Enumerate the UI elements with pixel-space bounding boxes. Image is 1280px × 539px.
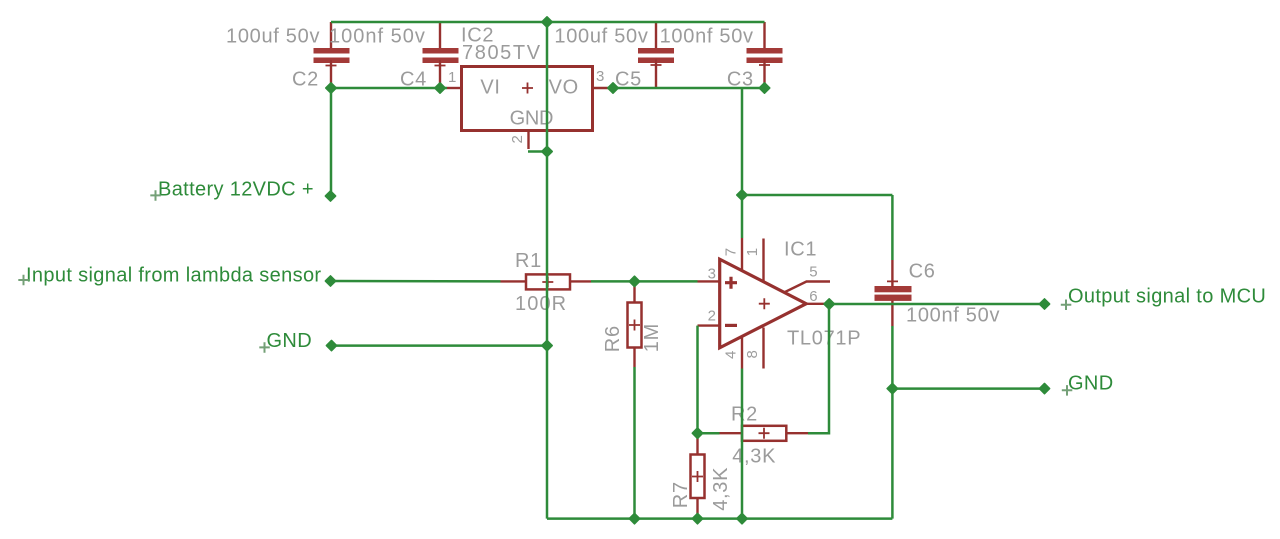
R7 origin cross	[692, 471, 703, 482]
IC2 pin 1 stub	[447, 87, 461, 89]
wire IC2 GND jog	[528, 150, 547, 153]
op-amp IC1 pin 4 stub	[741, 338, 743, 369]
capacitor C4 plates	[423, 48, 459, 63]
end dot output	[1039, 299, 1049, 309]
wire bottom GND rail	[547, 517, 892, 520]
junction output pin6	[824, 299, 834, 309]
C6 origin cross	[887, 276, 898, 287]
junction R7 top	[692, 428, 702, 438]
junction GND left	[542, 340, 552, 350]
svg-text:Output signal to MCU: Output signal to MCU	[1068, 286, 1266, 308]
svg-text:VO: VO	[549, 77, 579, 99]
junction C3	[759, 83, 769, 93]
wire +5V across to C6	[742, 194, 892, 197]
junction rail R7	[692, 513, 702, 523]
resistor R2 left lead	[720, 432, 743, 434]
svg-text:2: 2	[708, 307, 716, 324]
svg-text:VI: VI	[480, 77, 500, 99]
op-amp + input marker	[725, 277, 737, 289]
op-amp IC1 pin 8 stub	[762, 328, 764, 369]
C2 origin cross	[326, 60, 337, 71]
capacitor C2 plates	[314, 48, 350, 63]
IC2 box	[462, 67, 593, 131]
junction C2	[326, 83, 336, 93]
junction pin3 IC2	[608, 83, 618, 93]
C5 origin cross	[651, 60, 662, 71]
svg-text:TL071P: TL071P	[787, 328, 861, 350]
svg-text:4: 4	[723, 351, 740, 359]
wire C6 branch lower	[891, 326, 894, 519]
junction IC2 GND	[542, 146, 552, 156]
svg-text:7805TV: 7805TV	[462, 42, 542, 64]
svg-text:4,3K: 4,3K	[710, 467, 732, 511]
svg-text:Input signal from lambda senso: Input signal from lambda sensor	[26, 265, 321, 287]
IC2 origin cross	[522, 83, 533, 94]
svg-text:100nf 50v: 100nf 50v	[660, 26, 754, 48]
end dot input	[325, 276, 335, 286]
wire R1 to pin3	[591, 280, 698, 283]
resistor R6 top lead	[633, 282, 635, 303]
capacitor C6 plates	[875, 286, 912, 301]
svg-text:1M: 1M	[641, 323, 663, 352]
resistor R1 left lead	[501, 280, 527, 282]
resistor R6 bottom lead	[633, 348, 635, 368]
end dot GND left	[326, 341, 336, 351]
op-amp - input marker	[725, 324, 737, 327]
wire pin2 down	[698, 326, 720, 434]
op-amp IC1 pin 1 stub	[762, 239, 764, 282]
junction R1/R6	[629, 276, 639, 286]
wire C6 branch upper	[891, 195, 894, 260]
svg-text:C6: C6	[909, 261, 936, 283]
resistor R7 bottom lead	[696, 498, 698, 518]
svg-text:3: 3	[708, 266, 716, 283]
svg-text:1: 1	[448, 69, 456, 86]
svg-text:Battery 12VDC +: Battery 12VDC +	[158, 178, 314, 200]
junction +5V corner	[737, 190, 747, 200]
resistor R7 top lead	[696, 433, 698, 454]
svg-text:100uf 50v: 100uf 50v	[226, 26, 320, 48]
capacitor C3 lead	[763, 22, 765, 49]
svg-text:GND: GND	[267, 330, 313, 352]
resistor R2 body	[742, 426, 786, 441]
junction top rail	[542, 17, 552, 27]
svg-text:8: 8	[744, 350, 761, 358]
R6 origin cross	[629, 320, 640, 331]
svg-text:100uf 50v: 100uf 50v	[554, 26, 648, 48]
wire +12V row	[331, 87, 447, 90]
svg-text:R6: R6	[602, 325, 624, 352]
capacitor C5 plates	[638, 48, 674, 63]
wire output row	[827, 303, 1045, 306]
resistor R1 body	[526, 274, 570, 289]
svg-text:5: 5	[809, 264, 817, 281]
IC2 pin 2 GND stub	[527, 131, 529, 150]
junction C4	[435, 83, 445, 93]
resistor R6 body	[628, 303, 642, 348]
svg-text:C2: C2	[292, 69, 319, 91]
capacitor C6 bottom lead	[891, 300, 893, 326]
capacitor C3 plates	[747, 48, 783, 63]
op-amp IC1 pin 3 stub	[698, 280, 721, 282]
svg-text:R1: R1	[515, 250, 542, 272]
svg-text:R2: R2	[731, 404, 758, 426]
svg-text:100nf 50v: 100nf 50v	[329, 26, 426, 48]
wire GND left row	[331, 344, 547, 347]
resistor R7 body	[691, 455, 705, 499]
svg-text:100nf 50v: 100nf 50v	[906, 305, 1000, 327]
end dot GND right	[1039, 384, 1049, 394]
op-amp IC1 pin 5 stub	[785, 282, 830, 293]
wire R6 down	[633, 367, 636, 519]
wire input row	[331, 280, 501, 283]
junction rail R6	[629, 513, 639, 523]
capacitor C4 lead	[439, 22, 441, 49]
end dot battery	[325, 191, 335, 201]
svg-text:3: 3	[596, 68, 604, 85]
junction rail pin4	[737, 513, 747, 523]
op-amp IC1 pin 2 stub	[698, 324, 721, 326]
wire pin4 down	[741, 369, 744, 519]
junction GND right	[887, 383, 897, 393]
wire +5V down to opamp	[741, 88, 744, 238]
origin crosses (dark red)	[326, 60, 899, 483]
svg-text:1: 1	[744, 248, 761, 256]
op-amp U1 triangle	[720, 259, 807, 348]
IC1 origin cross	[759, 298, 770, 309]
svg-text:7: 7	[723, 248, 740, 256]
resistor R2 right lead	[786, 432, 808, 434]
capacitor C6 top lead	[891, 260, 893, 287]
IC2 pin 3 stub	[593, 87, 611, 89]
R1 origin cross	[542, 277, 553, 288]
wire battery drop	[330, 88, 333, 196]
svg-text:6: 6	[809, 288, 817, 305]
svg-text:2: 2	[509, 135, 526, 143]
op-amp IC1 pin 6 stub	[805, 303, 827, 305]
wire GND right row	[892, 387, 1044, 390]
capacitor C2 lead	[330, 22, 332, 49]
svg-text:4,3K: 4,3K	[732, 446, 776, 468]
wire +5V row	[610, 87, 765, 90]
resistor R1 right lead	[570, 280, 591, 282]
wire feedback R2 to output	[808, 304, 829, 433]
svg-text:IC1: IC1	[784, 239, 817, 261]
wire GND vertical main	[546, 22, 549, 519]
C4 origin cross	[435, 60, 446, 71]
svg-text:100R: 100R	[515, 293, 567, 315]
svg-text:R7: R7	[670, 481, 692, 508]
R2 origin cross	[759, 428, 770, 439]
wire top GND rail	[331, 21, 765, 24]
svg-text:GND: GND	[1068, 373, 1114, 395]
C3 origin cross	[759, 60, 770, 71]
capacitor C5 lead	[655, 22, 657, 49]
op-amp IC1 pin 7 stub	[741, 238, 743, 271]
